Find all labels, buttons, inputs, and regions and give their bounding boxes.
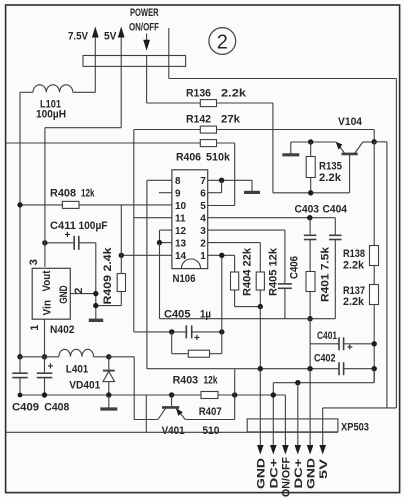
wire collector node down to R138 — [373, 142, 375, 246]
IC right pin numbers 7-1 — [200, 176, 206, 262]
wire schematic bottom rail — [6, 431, 338, 433]
node R135 bottom — [308, 190, 313, 195]
svg-text:R136: R136 — [186, 88, 211, 100]
resistor R404 — [231, 247, 261, 306]
svg-text:ON/OFF: ON/OFF — [129, 22, 159, 34]
label Vin — [42, 300, 54, 316]
svg-text:GND: GND — [256, 458, 268, 489]
svg-text:7: 7 — [200, 176, 206, 187]
wire R138-R137 — [373, 266, 375, 285]
wire pin4 row — [208, 217, 336, 219]
capacitor C411 — [45, 220, 108, 250]
svg-text:+: + — [48, 361, 54, 372]
wire pin1 column — [221, 255, 223, 332]
resistor R409 — [102, 205, 126, 306]
label GND — [58, 285, 70, 304]
svg-text:R138: R138 — [343, 248, 365, 260]
node C402 pin5col — [307, 366, 312, 371]
svg-text:3: 3 — [200, 226, 206, 237]
label V104 — [338, 116, 363, 128]
svg-text:27k: 27k — [221, 114, 241, 126]
transistor V104 — [336, 142, 375, 193]
svg-text:2: 2 — [73, 288, 85, 294]
svg-text:VD401: VD401 — [69, 380, 100, 392]
wire collector node to DC rail — [374, 142, 387, 408]
label 5V pin6 — [318, 458, 330, 479]
svg-text:2.2k: 2.2k — [319, 172, 342, 184]
svg-text:N106: N106 — [173, 273, 196, 285]
ground VD401 — [100, 395, 117, 409]
svg-text:C403: C403 — [295, 204, 320, 216]
node N402 pin2 — [93, 291, 98, 296]
svg-text:R409 2.4k: R409 2.4k — [102, 247, 114, 305]
label GND pin1 — [256, 458, 268, 489]
wire R406 down to pin5 — [208, 143, 235, 206]
svg-text:12k: 12k — [81, 188, 95, 200]
svg-text:R137: R137 — [343, 285, 365, 297]
node C402 right — [372, 366, 377, 371]
svg-text:R403: R403 — [173, 375, 199, 387]
wire pin1 row — [208, 254, 235, 256]
node C408 top — [42, 354, 47, 359]
sheet number circle 2 — [209, 28, 236, 55]
7.5V supply arrow — [68, 27, 99, 56]
wire pin12 stub — [160, 230, 172, 243]
node C402 pin1col — [258, 366, 263, 371]
svg-text:4: 4 — [200, 214, 206, 225]
wire R401 col to C402 row — [309, 319, 311, 369]
wire ON/OFF to right frame — [169, 78, 397, 80]
svg-text:6: 6 — [200, 189, 206, 200]
wire bottom rail — [20, 394, 285, 396]
node C408 bottom — [42, 392, 47, 397]
wire POWER rail down — [146, 56, 148, 104]
ground at V104 emitter — [282, 142, 299, 155]
connector XP503 box — [247, 419, 369, 434]
resistor R135 — [306, 142, 342, 193]
transistor V401 — [158, 395, 235, 420]
svg-text:100µH: 100µH — [36, 109, 66, 121]
svg-text:5V: 5V — [104, 31, 117, 43]
svg-text:7.5V: 7.5V — [68, 31, 89, 43]
wire rail to frame bottom — [145, 395, 147, 432]
capacitor C409 — [12, 357, 39, 414]
wire pin13 column down — [159, 243, 161, 319]
svg-text:R408: R408 — [50, 188, 76, 200]
svg-text:R142: R142 — [186, 114, 211, 126]
wire R404 col to rail — [234, 369, 236, 420]
resistor R401 — [306, 246, 332, 319]
wire R142 corner down to V104 collector node — [373, 130, 375, 142]
svg-text:C401: C401 — [317, 330, 337, 342]
svg-text:ON/OFF: ON/OFF — [281, 457, 293, 497]
wire mid ground rail — [160, 318, 336, 320]
node R135 top — [308, 139, 313, 144]
IC left pin numbers 8-14 — [175, 176, 187, 262]
node VD401 bottom — [106, 392, 111, 397]
ground pin7 — [244, 180, 260, 192]
wire L401 row left — [20, 356, 59, 358]
wire pin2 col — [272, 383, 274, 446]
svg-text:2: 2 — [200, 238, 206, 249]
connector pin arrows — [257, 445, 326, 455]
wire R405 col down — [259, 307, 261, 369]
node C411 left — [42, 240, 47, 245]
svg-text:C402: C402 — [314, 353, 336, 365]
capacitor C405 — [186, 325, 200, 344]
node DC pin4 — [295, 380, 300, 385]
svg-text:100µF: 100µF — [79, 220, 108, 232]
wire xp pin5 col — [309, 369, 311, 446]
power bus bar — [83, 56, 186, 67]
IC N106 box — [172, 170, 208, 269]
svg-text:R407: R407 — [199, 406, 222, 418]
wire 5V to N402 Vout — [45, 128, 121, 267]
wire R137 down — [373, 305, 375, 383]
node V104 collector — [372, 139, 377, 144]
svg-text:2.2k: 2.2k — [343, 259, 365, 271]
wire to V401 emitter — [134, 357, 158, 420]
wire 5V row — [323, 408, 397, 446]
label GND pin5 — [305, 458, 317, 489]
wire pin13 — [160, 242, 172, 244]
svg-text:L401: L401 — [66, 364, 89, 376]
svg-text:C404: C404 — [323, 204, 348, 216]
label N402 — [50, 324, 75, 336]
label C401 — [317, 330, 337, 342]
node C405 left — [169, 329, 174, 334]
svg-text:+: + — [347, 343, 353, 354]
svg-text:R405 12k: R405 12k — [268, 247, 280, 296]
svg-text:13: 13 — [175, 238, 187, 249]
svg-text:10: 10 — [175, 201, 187, 212]
wire pin14 — [121, 254, 172, 256]
node pin6-7 — [219, 178, 224, 183]
label R403 — [173, 375, 219, 387]
wire vertical R142-R408-pins bus — [133, 130, 135, 332]
wire R136 to V104 base rail — [272, 103, 274, 193]
svg-text:12: 12 — [175, 226, 187, 237]
wire V104 emitter rail — [291, 141, 337, 143]
capacitor C404 — [329, 218, 342, 319]
svg-text:1: 1 — [29, 325, 41, 331]
wire pin3 row — [208, 229, 285, 231]
label ON/OFF pin3 — [281, 457, 293, 497]
resistor R142 — [134, 114, 374, 134]
svg-text:Vin: Vin — [42, 300, 54, 316]
wire pin8 column down — [146, 180, 148, 369]
POWER ON/OFF arrow — [143, 34, 150, 51]
wire pin6 up — [208, 180, 222, 192]
svg-text:5V: 5V — [318, 458, 330, 479]
svg-text:C409: C409 — [12, 402, 39, 414]
label POWER ON/OFF — [129, 7, 159, 34]
node R408 left — [17, 202, 22, 207]
svg-text:2.2k: 2.2k — [343, 296, 365, 308]
svg-text:GND: GND — [305, 458, 317, 489]
label N402 pin3 — [28, 259, 40, 265]
svg-text:C408: C408 — [44, 402, 69, 414]
svg-text:V104: V104 — [338, 116, 363, 128]
diode VD401 — [69, 357, 114, 395]
wire xp pin4 col — [297, 383, 299, 446]
svg-text:C411: C411 — [50, 220, 76, 232]
svg-text:2.2k: 2.2k — [221, 88, 247, 100]
svg-text:R401 7.5k: R401 7.5k — [320, 246, 332, 302]
svg-text:POWER: POWER — [130, 7, 159, 19]
inductor L401 — [59, 349, 109, 375]
label DC+ pin4 — [293, 459, 305, 489]
svg-text:Vout: Vout — [41, 270, 53, 291]
node R405 bottom — [258, 304, 263, 309]
svg-text:12k: 12k — [204, 375, 219, 387]
wire N402 pin2 — [70, 288, 96, 294]
node C409 bottom — [18, 393, 23, 398]
svg-text:DC+: DC+ — [269, 459, 281, 489]
regulator N402 box — [32, 268, 70, 319]
node VD401 top — [106, 354, 111, 359]
wire DC row — [273, 369, 374, 383]
resistor R403 — [172, 332, 222, 357]
svg-text:11: 11 — [175, 214, 186, 225]
node C409 top — [17, 354, 22, 359]
svg-text:R404 22k: R404 22k — [242, 247, 254, 296]
label N402 pin1 — [29, 325, 41, 331]
node pin14 R409 — [119, 253, 124, 258]
label C402 — [314, 353, 336, 365]
wire 5V rail down — [120, 56, 122, 128]
wire ON/OFF right rail — [395, 79, 397, 408]
node pin2 rail — [271, 392, 276, 397]
wire V104 base bottom rail — [273, 192, 350, 194]
svg-text:2: 2 — [217, 31, 228, 53]
svg-text:R406: R406 — [176, 152, 201, 164]
svg-text:5: 5 — [200, 201, 206, 212]
label C403 C404 — [295, 204, 348, 216]
resistor R137 — [343, 285, 379, 309]
wire pin11 col corner — [134, 331, 222, 333]
node pin12-13 — [157, 240, 162, 245]
svg-text:+: + — [194, 333, 200, 344]
wire left 7.5V column — [19, 92, 21, 357]
capacitor C406 — [278, 230, 301, 319]
label N106 — [173, 273, 196, 285]
svg-text:N402: N402 — [50, 324, 75, 336]
label DC+ pin2 — [269, 459, 281, 489]
wire xp pin1 col — [259, 369, 261, 446]
wire pin2 row — [208, 243, 261, 272]
node V401 base — [169, 392, 174, 397]
svg-text:DC+: DC+ — [293, 459, 305, 489]
wire ON/OFF net vertical — [168, 28, 170, 79]
wire xp pin3 col — [284, 395, 286, 445]
wire 7.5V rail down — [94, 56, 96, 93]
node pin1 — [219, 253, 224, 258]
5V supply arrow — [104, 27, 125, 56]
svg-text:9: 9 — [175, 189, 181, 200]
capacitor C401 — [310, 337, 374, 353]
wire pin8 — [147, 179, 172, 181]
inductor L101 — [20, 85, 95, 93]
node R409 bottom — [93, 303, 98, 308]
svg-text:GND: GND — [58, 285, 70, 304]
node R407 right — [232, 392, 237, 397]
wire N402 pin1 down — [44, 319, 46, 357]
node R401 bottom — [307, 316, 312, 321]
wire L401 row right — [109, 356, 134, 358]
wire C411 right down — [95, 243, 97, 319]
label Vout — [41, 270, 53, 291]
svg-text:R135: R135 — [319, 161, 342, 173]
node C403 — [307, 215, 312, 220]
label V401 — [162, 425, 185, 437]
capacitor C403 R401 column — [304, 218, 317, 272]
resistor R405 — [256, 247, 279, 306]
capacitor C408 — [37, 357, 70, 414]
svg-text:510k: 510k — [206, 152, 231, 164]
svg-text:3: 3 — [28, 259, 40, 265]
label L101 — [36, 99, 66, 121]
svg-text:14: 14 — [175, 251, 187, 262]
capacitor C402 row — [147, 362, 374, 375]
resistor R407 — [199, 392, 222, 438]
node C405 right — [219, 329, 224, 334]
svg-text:V401: V401 — [162, 425, 185, 437]
ground N402 — [89, 319, 103, 322]
resistor R138 — [343, 246, 379, 272]
node C401 right — [372, 341, 377, 346]
wire R409 bottom — [96, 305, 121, 307]
resistor R408 pin10 row — [20, 188, 172, 209]
resistor R406 — [6, 140, 234, 164]
wire pin11 — [134, 217, 172, 219]
svg-text:1: 1 — [200, 251, 206, 262]
svg-text:8: 8 — [175, 176, 181, 187]
label C405 — [164, 309, 211, 321]
svg-text:XP503: XP503 — [341, 422, 369, 434]
resistor R136 — [147, 88, 273, 107]
svg-text:C406: C406 — [289, 256, 301, 279]
svg-text:510: 510 — [202, 425, 219, 437]
wire pin7 row — [208, 179, 252, 181]
pin9 nc dash — [159, 192, 172, 194]
